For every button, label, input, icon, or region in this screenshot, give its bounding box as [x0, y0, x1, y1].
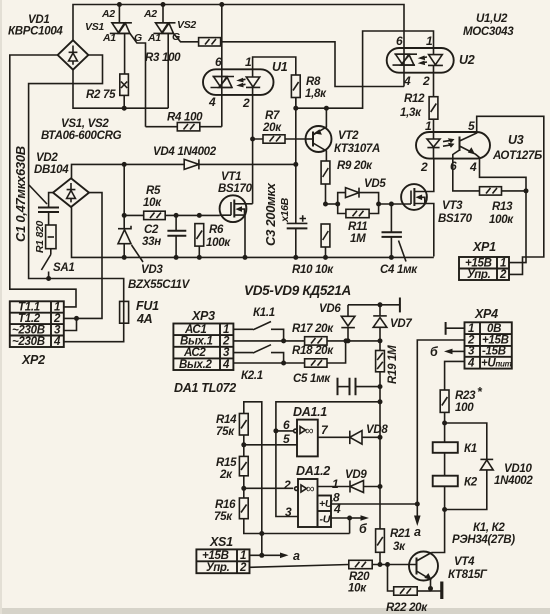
- svg-text:4А: 4А: [136, 312, 153, 326]
- U2 internal LED: [428, 48, 443, 97]
- wire R5 branch down from VD4 line: [124, 164, 144, 215]
- svg-text:R1 820: R1 820: [34, 220, 46, 253]
- svg-text:1: 1: [332, 477, 339, 491]
- wire emitter to chassis bar: [431, 589, 444, 592]
- svg-text:ХР3: ХР3: [191, 309, 215, 323]
- svg-text:~230В: ~230В: [12, 324, 45, 336]
- svg-text:VD5: VD5: [364, 178, 386, 190]
- svg-text:3: 3: [285, 505, 292, 519]
- node junction VS2 A2 on top rail: [161, 2, 166, 7]
- U3 light arrows: [443, 140, 451, 146]
- svg-text:1: 1: [468, 323, 474, 335]
- svg-text:R5: R5: [146, 185, 161, 197]
- node junction XS1 pin1 / +15 rail: [259, 553, 264, 558]
- svg-text:R2 75: R2 75: [86, 89, 116, 101]
- svg-text:2: 2: [53, 313, 61, 325]
- svg-text:FU1: FU1: [136, 299, 159, 313]
- svg-text:VD8: VD8: [366, 424, 388, 436]
- wire VD6/VD7 top to 0V tap: [348, 304, 399, 306]
- svg-text:ХS1: ХS1: [209, 535, 233, 549]
- wire VT4 collector to K2: [432, 510, 445, 553]
- node junction R23 bottom / VD10 top: [442, 421, 447, 426]
- svg-text:4: 4: [469, 160, 477, 174]
- svg-text:АС2: АС2: [183, 347, 206, 359]
- svg-text:АОТ127Б: АОТ127Б: [492, 150, 542, 162]
- node junction C4 bottom on rail: [389, 255, 394, 260]
- svg-text:R11: R11: [348, 221, 367, 233]
- resistor R11 branch (horizontal): [338, 204, 379, 218]
- svg-text:U1,U2: U1,U2: [476, 13, 508, 25]
- svg-text:2: 2: [420, 160, 428, 174]
- node junction C2 bottom on rail: [174, 255, 179, 260]
- svg-text:1: 1: [500, 258, 506, 270]
- wire XP3 pin4 to R18: [233, 362, 304, 364]
- U1 light arrows: [239, 79, 246, 85]
- svg-text:R16: R16: [215, 499, 236, 511]
- svg-text:Упр.: Упр.: [467, 269, 491, 281]
- resistor R17 (horizontal): [305, 337, 346, 345]
- diode VD5 branch: [338, 188, 379, 204]
- svg-text:1: 1: [425, 119, 432, 133]
- svg-text:U2: U2: [459, 53, 475, 67]
- wire R8 bottom node to VT2 emitter and up to U2 pin1: [296, 31, 434, 108]
- svg-text:R14: R14: [216, 414, 237, 426]
- svg-text:РЭН34(27В): РЭН34(27В): [452, 534, 515, 546]
- node junction R15/R16 tap: [241, 486, 246, 491]
- svg-text:4: 4: [208, 95, 216, 109]
- node junction XS1 rail on -U rail: [259, 531, 264, 536]
- wire R8 node down to VD4 line: [295, 98, 297, 165]
- node junction R13 right: [524, 188, 529, 193]
- wire DA1.2 output pin1 to VD9: [318, 486, 351, 488]
- connector XP1: [459, 257, 509, 281]
- switch SA1: [41, 255, 50, 271]
- svg-text:VD3: VD3: [141, 264, 163, 276]
- svg-text:R3 100: R3 100: [145, 52, 181, 64]
- svg-text:R8: R8: [306, 76, 321, 88]
- switch contact K2.1: [233, 345, 283, 363]
- svg-text:Вых.2: Вых.2: [179, 359, 213, 371]
- svg-text:VD6: VD6: [319, 303, 341, 315]
- svg-text:К1.1: К1.1: [253, 307, 275, 319]
- svg-text:DB104: DB104: [34, 164, 69, 176]
- svg-text:G: G: [172, 31, 180, 43]
- svg-text:С3 200мкх: С3 200мкх: [263, 182, 278, 246]
- svg-text:3к: 3к: [393, 541, 406, 553]
- node junction R10 bottom on rail: [323, 255, 328, 260]
- svg-text:6: 6: [215, 55, 222, 69]
- svg-text:100к: 100к: [489, 214, 514, 226]
- svg-text:VT1: VT1: [221, 171, 241, 183]
- svg-text:10к: 10к: [348, 583, 367, 595]
- diode VD4: [184, 159, 199, 169]
- connector XP3: [173, 324, 233, 371]
- capacitor C3 electrolytic: [287, 164, 308, 257]
- node junction VT4 emitter / R22: [428, 586, 433, 591]
- optocoupler U2 body: [387, 48, 454, 73]
- svg-text:VD4 1N4002: VD4 1N4002: [153, 146, 217, 158]
- node junction R14/R15 tap: [241, 442, 246, 447]
- resistor R3 (horizontal): [199, 38, 404, 87]
- capacitor C4: [382, 204, 407, 262]
- svg-text:2: 2: [422, 74, 430, 88]
- svg-text:DA1.1: DA1.1: [293, 405, 327, 419]
- svg-text:С5 1мк: С5 1мк: [293, 373, 331, 385]
- svg-text:∞: ∞: [306, 482, 314, 496]
- svg-text:R18 20к: R18 20к: [292, 345, 334, 357]
- svg-text:VD2: VD2: [36, 152, 58, 164]
- node junction K1.1 to pin2: [281, 338, 286, 343]
- resistor R4 (horizontal): [177, 123, 222, 131]
- node junction VT1 source on rail: [243, 255, 248, 260]
- divider R14 top wire to XS1 +15V rail: [244, 402, 262, 555]
- svg-text:А2: А2: [101, 8, 115, 20]
- triac VS2: [153, 5, 198, 109]
- node junction R6 top: [197, 213, 202, 218]
- wire comparator input node line: [346, 340, 380, 342]
- svg-text:Т1.1: Т1.1: [18, 302, 40, 314]
- svg-text:К2.1: К2.1: [241, 370, 263, 382]
- svg-text:SA1: SA1: [53, 262, 74, 274]
- svg-text:R20: R20: [349, 571, 370, 583]
- resistor R5 (horizontal): [144, 211, 220, 219]
- MOSFET VT3 BS170: [401, 159, 434, 257]
- wire XP4 pin4 to R23: [445, 361, 465, 390]
- svg-text:6: 6: [283, 418, 290, 432]
- svg-text:∞: ∞: [305, 424, 313, 438]
- svg-text:Упр.: Упр.: [206, 562, 230, 574]
- svg-text:2: 2: [239, 562, 247, 574]
- U3 internal LED: [427, 132, 440, 159]
- svg-text:VS1, VS2: VS1, VS2: [61, 118, 109, 130]
- wire top rail from VD1 top to U2 pin6: [73, 5, 404, 87]
- diode VD6: [341, 305, 355, 341]
- svg-text:R23: R23: [455, 390, 476, 402]
- wire XP2 pin4 to FU1 bottom: [64, 323, 124, 342]
- diode VD9: [350, 481, 380, 493]
- node junction +U/+15V: [415, 502, 420, 507]
- svg-text:BZX55C11V: BZX55C11V: [128, 279, 191, 291]
- node junction K2 bottom / VD10: [442, 507, 447, 512]
- svg-text:С2: С2: [144, 224, 159, 236]
- svg-text:VD5-VD9 КД521А: VD5-VD9 КД521А: [244, 283, 351, 298]
- terminal bar 0V at XP4 pin1: [445, 322, 447, 335]
- svg-text:BS170: BS170: [438, 213, 473, 225]
- svg-text:~230В: ~230В: [12, 336, 45, 348]
- resistor R8 (vertical): [291, 75, 300, 108]
- svg-text:+15В: +15В: [465, 258, 492, 270]
- node junction R6 bottom on rail: [197, 255, 202, 260]
- U1 internal triac: [211, 77, 235, 88]
- svg-text:а: а: [414, 525, 421, 539]
- wire bottom 0V rail: [72, 207, 434, 257]
- net arrow a down from +15V node: [416, 504, 418, 518]
- svg-text:VT3: VT3: [442, 200, 463, 212]
- node junction -U tie: [347, 516, 352, 521]
- svg-text:R7: R7: [265, 110, 280, 122]
- svg-text:10к: 10к: [143, 197, 162, 209]
- svg-text:75к: 75к: [214, 511, 233, 523]
- transistor VT2 КТ3107А: [306, 108, 332, 161]
- wire K1 to K2: [444, 453, 446, 476]
- svg-text:1М: 1М: [350, 233, 366, 245]
- resistor R20 (horizontal): [349, 560, 417, 568]
- svg-text:КТ815Г: КТ815Г: [448, 569, 488, 581]
- node junction VD5/R11 left: [335, 202, 340, 207]
- svg-text:VS2: VS2: [177, 19, 196, 31]
- node junction R21 bottom / VT4 base: [378, 562, 383, 567]
- wire +V line from VD2 top with diode VD4: [72, 164, 185, 178]
- svg-text:А1: А1: [102, 32, 116, 44]
- connector XP4: [465, 322, 512, 369]
- node junction R8 bottom: [293, 106, 298, 111]
- svg-text:ХР1: ХР1: [472, 240, 496, 254]
- svg-text:2: 2: [283, 478, 291, 492]
- connector XS1: [196, 549, 249, 574]
- node junction VT2 emitter: [324, 106, 329, 111]
- diode VD7: [373, 305, 387, 341]
- svg-text:С4 1мк: С4 1мк: [380, 264, 418, 276]
- svg-text:1: 1: [54, 302, 60, 314]
- optocoupler U1 body: [203, 69, 274, 95]
- capacitor C5: [338, 378, 381, 396]
- svg-text:2: 2: [242, 96, 250, 110]
- svg-text:Т1.2: Т1.2: [18, 313, 41, 325]
- svg-text:С1 0,47мкх630В: С1 0,47мкх630В: [13, 146, 28, 242]
- optocoupler U3 body: [416, 132, 490, 159]
- U1 internal LED: [246, 69, 260, 96]
- resistor R10 (vertical): [321, 224, 330, 257]
- wire VS1 gate down to R4: [146, 126, 178, 128]
- node junction VD5/R11 right: [376, 202, 381, 207]
- svg-text:R21: R21: [390, 528, 410, 540]
- node junction K2.1 to pin4: [281, 361, 286, 366]
- capacitor C2: [167, 215, 186, 257]
- U2 internal triac: [393, 54, 418, 65]
- wire U1 pin2 down to VT1 drain (crosses VD4 line): [252, 139, 254, 204]
- node junction R7 left: [250, 137, 255, 142]
- wire DA1.2 pin4 -U: [331, 518, 350, 534]
- switch contact K1.1: [233, 322, 283, 341]
- svg-text:20к: 20к: [262, 122, 282, 134]
- svg-text:3: 3: [223, 347, 230, 359]
- svg-text:2к: 2к: [219, 469, 233, 481]
- wire XS1 pin1 to net a: [250, 554, 281, 556]
- wire comparator node to DA1.1 pin6 / DA1.2 pin3: [276, 402, 380, 517]
- svg-text:VT4: VT4: [454, 556, 475, 568]
- svg-text:BS170: BS170: [218, 183, 253, 195]
- resistor R16 (vertical): [239, 498, 349, 534]
- net arrow б at -U pin: [350, 517, 362, 519]
- resistor R14 (vertical): [239, 414, 248, 457]
- wire VD1 left corner to left rail down to XP2 pin1: [10, 55, 76, 307]
- connector XP2: [10, 301, 64, 348]
- resistor R22 (horizontal): [388, 565, 431, 596]
- svg-text:а: а: [293, 549, 300, 563]
- svg-text:1: 1: [223, 324, 229, 336]
- diode VD10: [445, 423, 494, 510]
- wire tap to DA1.2 pin2: [244, 487, 293, 489]
- op-amp DA1.1: [294, 420, 318, 457]
- MOSFET VT1 BS170: [220, 195, 253, 257]
- svg-text:G: G: [134, 32, 142, 44]
- svg-text:А1: А1: [147, 32, 161, 44]
- svg-text:R22 20к: R22 20к: [386, 602, 428, 614]
- transistor VT4 КТ815Г: [409, 552, 438, 589]
- svg-text:DA1 TL072: DA1 TL072: [174, 381, 236, 395]
- fuse FU1: [120, 301, 129, 323]
- terminal bar at VT4 emitter: [440, 582, 443, 600]
- svg-text:К1, К2: К1, К2: [473, 522, 505, 534]
- U1 pin6/pin4 lead: [221, 5, 223, 127]
- wire K2 bottom to node: [444, 486, 446, 509]
- svg-text:х16В: х16В: [279, 197, 291, 223]
- wire DA1.2 pin8 +U to +15V vertical: [331, 503, 417, 505]
- wire U3 pin4 to XP1 pin1: [480, 158, 527, 263]
- node junction DA1.1 pin6: [273, 428, 278, 433]
- resistor R15 (vertical): [239, 456, 248, 498]
- net arrow б at XP4 pin3: [450, 350, 465, 352]
- triac VS1: [110, 5, 146, 127]
- svg-text:VS1: VS1: [85, 21, 104, 33]
- node junction C4 top: [389, 202, 394, 207]
- svg-text:U1: U1: [272, 60, 288, 74]
- svg-text:АС1: АС1: [184, 324, 207, 336]
- resistor R1 820 (vertical): [46, 225, 56, 255]
- svg-text:VD9: VD9: [345, 469, 367, 481]
- svg-text:-15В: -15В: [482, 346, 506, 358]
- svg-text:К1: К1: [464, 443, 477, 455]
- svg-text:VD1: VD1: [28, 14, 49, 26]
- svg-text:1: 1: [240, 550, 246, 562]
- svg-text:Вых.1: Вых.1: [180, 336, 213, 348]
- svg-text:U3: U3: [508, 133, 524, 147]
- svg-text:100: 100: [455, 402, 474, 414]
- resistor R12 (vertical): [429, 97, 438, 132]
- wire XP3 pin2 to R17: [233, 340, 304, 342]
- svg-text:ХР2: ХР2: [21, 353, 45, 367]
- svg-text:6: 6: [396, 34, 403, 48]
- wire XP4 pin1 to 0V terminal: [446, 327, 465, 329]
- wire VD1 bottom to R2/VS2 A1 row: [73, 70, 168, 109]
- node junction R9/R10/gate: [323, 202, 328, 207]
- node junction VD4 line / R5 branch: [122, 162, 127, 167]
- wire pin6 into DA1.1: [276, 430, 294, 432]
- svg-text:ВТА06-600CRG: ВТА06-600CRG: [41, 130, 122, 142]
- resistor R21 (vertical): [376, 529, 385, 565]
- svg-text:ХР4: ХР4: [474, 307, 498, 321]
- relay coil K2: [433, 476, 458, 487]
- terminal bar 0V near VD7: [399, 298, 401, 313]
- node junction C2 top: [174, 213, 179, 218]
- svg-text:R19 1М: R19 1М: [387, 345, 399, 384]
- wire U1 pin1 to R8 top: [253, 57, 296, 75]
- wire gate line to VD5/R11 left node: [326, 203, 338, 205]
- svg-text:1: 1: [426, 34, 433, 48]
- resistor R9 (vertical): [321, 161, 330, 204]
- node junction XP2 pin2/pin3 tie: [74, 316, 79, 321]
- wire VD1 right corner to rail2 down to SA1 bottom row: [29, 55, 124, 301]
- node junction VD9 right: [378, 484, 383, 489]
- svg-text:1,8к: 1,8к: [305, 88, 327, 100]
- svg-text:2: 2: [499, 269, 507, 281]
- node junction VD8 right: [378, 435, 383, 440]
- svg-text:3: 3: [468, 346, 475, 358]
- svg-text:4: 4: [53, 336, 61, 348]
- svg-text:VD10: VD10: [504, 463, 532, 475]
- wire right node to C4 node to VT3 gate: [379, 203, 402, 205]
- svg-text:2: 2: [222, 336, 230, 348]
- capacitor C1: [29, 185, 59, 225]
- wire XP2 pin3 jog: [64, 318, 77, 330]
- svg-text:5: 5: [283, 432, 290, 446]
- node junction R5 left / VD3: [122, 213, 127, 218]
- svg-text:DA1.2: DA1.2: [296, 464, 330, 478]
- node junction VS1 A2 on top rail: [117, 2, 122, 7]
- resistor R7 (horizontal): [263, 135, 306, 143]
- resistor R13 (horizontal): [480, 187, 527, 195]
- svg-text:0В: 0В: [487, 323, 501, 335]
- resistor R2 (vertical, x mark): [120, 74, 129, 108]
- svg-text:+15В: +15В: [202, 550, 229, 562]
- svg-text:R13: R13: [492, 201, 513, 213]
- node junction C5 right: [378, 384, 383, 389]
- wire XS1 pin2 to R20: [250, 565, 349, 568]
- U2 light arrows: [421, 57, 428, 63]
- svg-text:75к: 75к: [216, 426, 235, 438]
- node junction C3 top: [293, 162, 298, 167]
- svg-text:4: 4: [467, 357, 475, 369]
- relay coil K1: [433, 442, 458, 453]
- wire VD4 cathode to C3 node: [199, 163, 296, 165]
- node junction at R19 column top: [378, 399, 383, 404]
- wire R7 from U1 pin2 node to VT2 base: [253, 96, 263, 139]
- svg-text:КВРС1004: КВРС1004: [8, 26, 63, 38]
- svg-text:3: 3: [54, 324, 61, 336]
- svg-text:R4 100: R4 100: [167, 112, 203, 124]
- svg-text:R9 20к: R9 20к: [337, 160, 373, 172]
- wire XP4 pin2 +15V down to DA1.2 pin8 node: [417, 340, 464, 504]
- zener VD3: [118, 215, 143, 262]
- resistor R6 (vertical): [195, 224, 204, 258]
- svg-text:33н: 33н: [142, 236, 161, 248]
- wire VD2 right corner down to XP2 pin2: [64, 193, 102, 319]
- svg-text:R17 20к: R17 20к: [292, 323, 334, 335]
- node junction R22 riser: [385, 562, 390, 567]
- svg-text:1,3к: 1,3к: [400, 107, 422, 119]
- wire VD2 left corner to C1: [49, 193, 53, 208]
- svg-text:МОС3043: МОС3043: [463, 26, 514, 38]
- svg-text:+U: +U: [319, 498, 333, 510]
- node junction SA1 bottom: [46, 276, 51, 281]
- net arrow a at XS1: [280, 553, 289, 559]
- diode VD8: [350, 431, 380, 445]
- resistor R19 1M (vertical): [376, 341, 385, 402]
- svg-text:R10 10к: R10 10к: [292, 264, 334, 276]
- node junction VD7 bottom: [378, 338, 383, 343]
- node junction C3 bottom on rail: [293, 255, 298, 260]
- svg-text:R6: R6: [209, 224, 224, 236]
- svg-text:R15: R15: [216, 457, 237, 469]
- svg-text:КТ3107А: КТ3107А: [334, 143, 380, 155]
- diode bridge VD2 DB104: [53, 178, 89, 207]
- wire DA1.1 output pin7 to VD8: [318, 436, 350, 438]
- node junction R17/R18 tie: [344, 338, 349, 343]
- svg-text:К2: К2: [464, 477, 478, 489]
- U3 phototransistor: [459, 137, 461, 152]
- svg-text:-U: -U: [320, 514, 331, 526]
- node junction R2 bottom: [122, 106, 127, 111]
